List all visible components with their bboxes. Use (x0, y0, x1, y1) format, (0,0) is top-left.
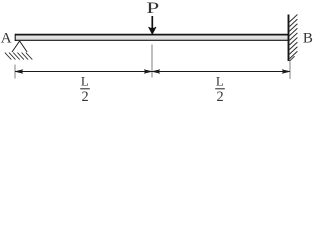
svg-text:P: P (146, 0, 159, 17)
arrowhead left (points left at A) (15, 70, 23, 74)
extension line at A (14, 65, 16, 79)
dimension label L/2 left (80, 73, 90, 105)
ground hatching under support A (5, 53, 33, 60)
pin support at A (12, 41, 27, 52)
svg-text:L: L (81, 73, 89, 88)
fixed wall at B (288, 15, 290, 62)
svg-text:2: 2 (82, 89, 89, 105)
load P arrow (149, 16, 157, 34)
svg-text:2: 2 (217, 89, 224, 105)
dimension line A to midspan (15, 71, 152, 73)
extension line at midspan (151, 45, 153, 78)
arrowhead right (points right at B) (282, 70, 290, 74)
svg-text:A: A (1, 31, 12, 47)
arrowhead pointing left into midspan tick (152, 70, 160, 74)
wall hatching at B (289, 15, 297, 62)
svg-text:L: L (216, 73, 224, 88)
arrowhead pointing right into midspan tick (144, 70, 152, 74)
extension line at B (289, 62, 291, 80)
dimension line midspan to B (152, 71, 290, 73)
svg-text:B: B (303, 31, 313, 47)
dimension label L/2 right (215, 73, 225, 105)
